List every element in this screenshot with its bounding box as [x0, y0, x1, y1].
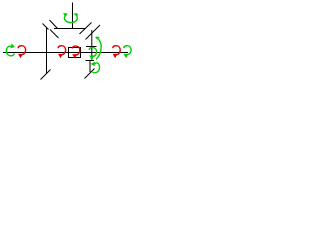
right gear upper flange	[86, 46, 97, 48]
green rotation arrow right axle end	[124, 46, 132, 58]
red rotation arrow inside box	[72, 46, 80, 58]
right mesh slash B	[86, 25, 101, 40]
red rotation arrow left axle	[18, 46, 26, 58]
green rotation arrow right gear (tall)	[89, 37, 101, 60]
right gear lower flange	[86, 61, 95, 73]
gear box housing	[69, 48, 81, 58]
red rotation arrow before box	[58, 46, 66, 58]
red rotation arrow right axle	[113, 46, 121, 58]
carrier top bar	[54, 28, 86, 30]
green rotation arrow left axle end	[6, 43, 15, 55]
green rotation arrow top shaft	[63, 13, 77, 23]
right mesh slash A	[80, 23, 92, 35]
main axle shaft	[3, 52, 128, 54]
carrier left leg	[46, 28, 48, 75]
top input shaft	[72, 3, 74, 29]
green rotation arrow lower right gear	[91, 62, 100, 73]
left mesh slash s2	[50, 20, 58, 29]
left mesh slash s3	[50, 30, 59, 39]
left bottom mesh slash	[41, 70, 51, 80]
right bottom mesh slash	[85, 69, 95, 79]
left mesh slash s1	[43, 24, 49, 30]
right gear stem	[91, 30, 93, 61]
